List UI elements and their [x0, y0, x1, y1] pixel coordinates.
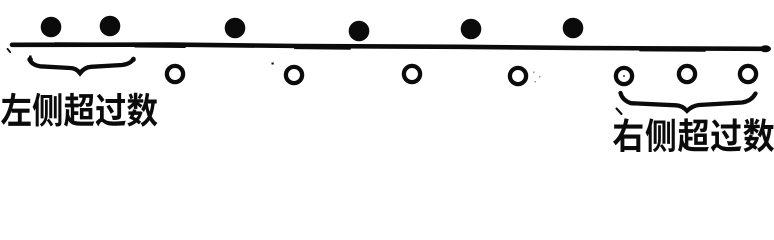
line texture overlay 1 [55, 42, 130, 44]
filled dot 5 (above line) [461, 19, 482, 40]
label: right label 右侧超过数 [613, 118, 774, 152]
filled dot 4 (above line) [349, 21, 370, 42]
speck above circle 2 [272, 63, 274, 65]
line texture overlay 2 [295, 47, 350, 50]
number line (horizontal axis) [12, 45, 765, 49]
stray tick below line left end [8, 49, 11, 52]
left underbrace [30, 59, 134, 73]
open circle 5 (below line) [616, 68, 632, 84]
right underbrace [621, 93, 756, 111]
line texture overlay 3 [640, 50, 705, 52]
open circle 6 (below line) [679, 66, 695, 82]
filled dot 3 (above line) [225, 18, 246, 39]
left brace left tip blob [28, 57, 33, 62]
faint specks right of circle 4 [533, 72, 541, 83]
line texture overlay 4 [135, 46, 185, 48]
filled dot 2 (above line) [100, 16, 121, 37]
label: left label 左侧超过数 [1, 93, 157, 127]
faint center dot in circle 5 [623, 75, 625, 77]
left brace right tip blob [131, 57, 136, 62]
filled dot 6 (above line) [563, 18, 584, 39]
line end blob (right) [760, 45, 771, 52]
stray tick below right brace left end [617, 109, 622, 115]
open circle 4 (below line) [510, 68, 526, 84]
speck under line near brace left [29, 56, 32, 58]
open circle 7 (below line) [740, 66, 756, 82]
filled dot 1 (above line) [41, 17, 62, 38]
open circle 1 (below line) [167, 66, 183, 82]
open circle 2 (below line) [286, 67, 302, 83]
open circle 3 (below line) [404, 66, 420, 82]
